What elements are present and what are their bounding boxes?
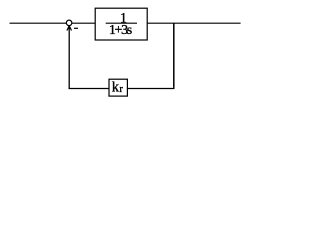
- svg-text:1+3s: 1+3s: [109, 23, 132, 38]
- svg-text:r: r: [119, 84, 123, 95]
